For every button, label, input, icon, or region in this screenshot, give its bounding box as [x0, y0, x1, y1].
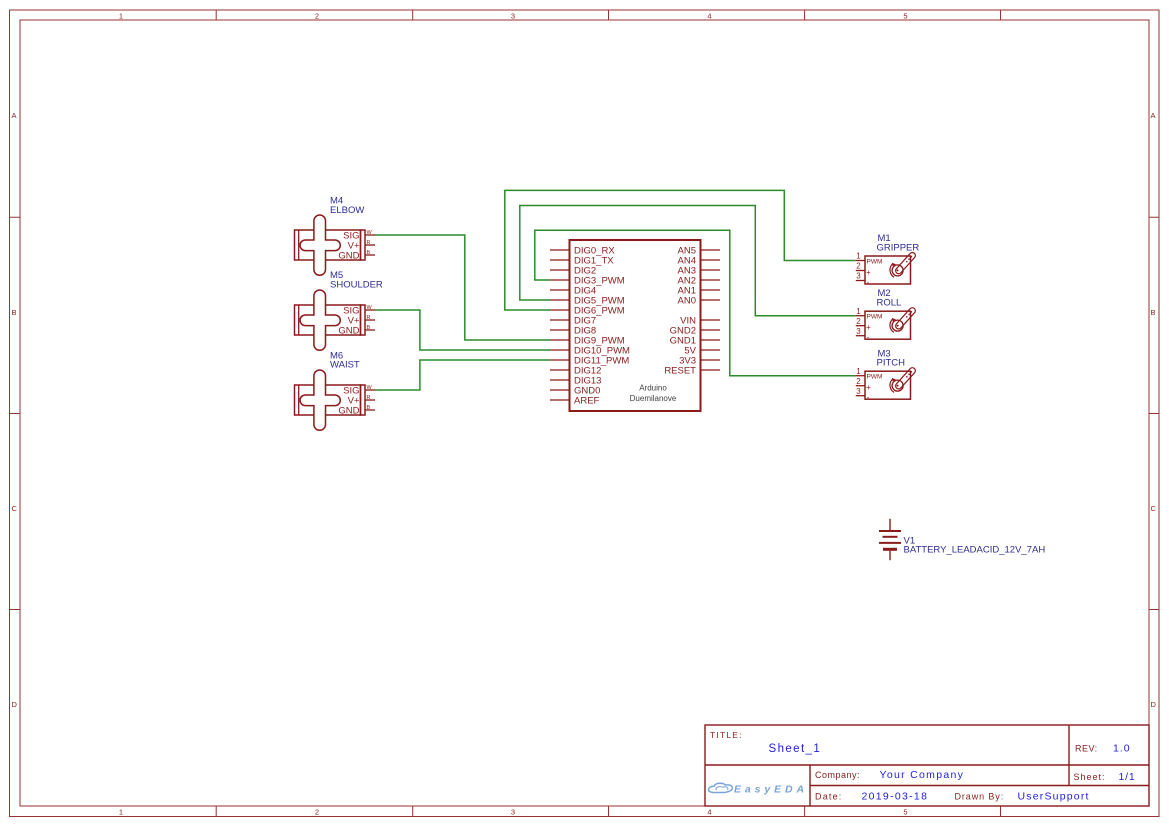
svg-text:B: B — [12, 308, 17, 317]
svg-text:Duemilanove: Duemilanove — [630, 394, 677, 403]
svg-text:5: 5 — [903, 807, 907, 816]
svg-text:AREF: AREF — [574, 395, 600, 406]
svg-text:C: C — [1151, 504, 1157, 513]
motor M3 — [856, 366, 917, 402]
servo connector M6 — [295, 370, 376, 430]
svg-text:Arduino: Arduino — [639, 384, 667, 393]
wire DIG3_PWM to M3 pin1 — [535, 230, 856, 376]
svg-text:C: C — [12, 504, 18, 513]
svg-text:4: 4 — [707, 11, 711, 20]
U1 left pins DIG0_RX..AREF — [550, 250, 570, 400]
svg-text:Date:: Date: — [815, 792, 843, 802]
svg-text:PITCH: PITCH — [877, 358, 906, 369]
wire DIG5_PWM to M2 pin1 — [520, 206, 856, 316]
svg-text:D: D — [1151, 700, 1157, 709]
wire DIG6_PWM to M1 pin1 — [505, 190, 856, 310]
servo connector M5 — [295, 290, 376, 350]
title block — [705, 725, 1149, 806]
svg-text:Sheet:: Sheet: — [1074, 772, 1106, 782]
svg-text:SHOULDER: SHOULDER — [330, 280, 383, 291]
svg-text:D: D — [12, 700, 18, 709]
svg-text:B: B — [1151, 308, 1156, 317]
svg-text:2: 2 — [315, 11, 319, 20]
battery V1 — [879, 519, 901, 560]
svg-text:2: 2 — [315, 807, 319, 816]
svg-text:AN0: AN0 — [678, 295, 696, 306]
svg-text:1/1: 1/1 — [1119, 771, 1136, 783]
svg-text:5: 5 — [903, 11, 907, 20]
svg-text:WAIST: WAIST — [330, 360, 360, 371]
svg-text:ELBOW: ELBOW — [330, 205, 364, 216]
svg-text:Drawn By:: Drawn By: — [955, 792, 1005, 802]
svg-text:2019-03-18: 2019-03-18 — [862, 791, 929, 803]
motor M1 — [856, 251, 917, 287]
svg-text:3: 3 — [511, 807, 515, 816]
motor M2 — [856, 306, 917, 342]
U1 left pin labels — [574, 245, 630, 406]
svg-text:3: 3 — [511, 11, 515, 20]
wire M4 SIG to DIG9_PWM — [375, 235, 550, 340]
servo connector M4 — [295, 215, 376, 275]
IC U1 Arduino Duemilanove body — [570, 240, 701, 411]
svg-text:Your Company: Your Company — [880, 769, 965, 781]
svg-text:UserSupport: UserSupport — [1018, 791, 1090, 803]
U1 right pin labels — [664, 245, 696, 376]
svg-text:Company:: Company: — [815, 770, 860, 780]
wire M5 SIG to DIG10_PWM — [375, 310, 550, 350]
svg-text:TITLE:: TITLE: — [710, 730, 743, 740]
svg-text:EasyEDA: EasyEDA — [734, 784, 808, 796]
svg-text:A: A — [12, 111, 17, 120]
svg-text:1: 1 — [119, 807, 123, 816]
svg-text:GRIPPER: GRIPPER — [877, 242, 920, 253]
U1 right pins AN5..RESET — [701, 250, 721, 370]
EasyEDA logo — [709, 783, 808, 795]
svg-text:1: 1 — [119, 11, 123, 20]
svg-text:ROLL: ROLL — [877, 298, 902, 309]
svg-text:Sheet_1: Sheet_1 — [769, 743, 822, 755]
svg-text:RESET: RESET — [664, 365, 696, 376]
svg-text:1.0: 1.0 — [1113, 743, 1131, 755]
svg-text:REV:: REV: — [1075, 744, 1098, 754]
wire M6 SIG to DIG11_PWM — [375, 360, 550, 390]
svg-text:4: 4 — [707, 807, 711, 816]
svg-text:BATTERY_LEADACID_12V_7AH: BATTERY_LEADACID_12V_7AH — [904, 545, 1046, 556]
svg-text:A: A — [1151, 111, 1156, 120]
